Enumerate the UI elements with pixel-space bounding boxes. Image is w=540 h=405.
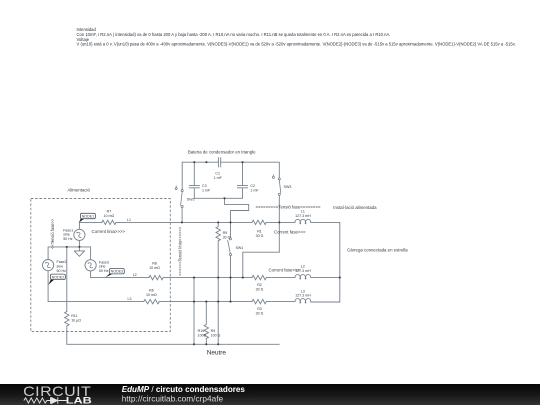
svg-text:L3: L3 <box>128 297 132 301</box>
svg-text:R10: R10 <box>198 329 205 333</box>
svg-text:Fase2: Fase2 <box>57 260 67 264</box>
svg-text:R7: R7 <box>107 210 112 214</box>
svg-text:1 mF: 1 mF <box>250 188 259 192</box>
svg-text:Corrent fase>>>: Corrent fase>>> <box>269 268 301 273</box>
svg-text:50 Hz: 50 Hz <box>99 269 109 273</box>
svg-text:10 mΩ: 10 mΩ <box>146 293 157 297</box>
svg-text:http://circuitlab.com/crp4afe: http://circuitlab.com/crp4afe <box>122 394 224 404</box>
svg-text:SW3: SW3 <box>284 185 292 189</box>
svg-text:L2: L2 <box>301 265 305 269</box>
svg-text:SW2: SW2 <box>187 198 195 202</box>
svg-text:sine: sine <box>99 265 106 269</box>
svg-text:<<<<<<<<<Tensió fase>>>>>>>>: <<<<<<<<<Tensió fase>>>>>>>> <box>255 204 321 209</box>
svg-text:<<<<<<Tensió línia>>>>>>: <<<<<<Tensió línia>>>>>> <box>178 226 183 276</box>
svg-text:R3: R3 <box>257 307 262 311</box>
svg-text:1 mF: 1 mF <box>214 176 223 180</box>
svg-text:10 mΩ: 10 mΩ <box>104 214 115 218</box>
svg-text:30 Ω: 30 Ω <box>256 234 264 238</box>
svg-text:100 Ω: 100 Ω <box>211 333 221 337</box>
svg-text:10 μΩ: 10 μΩ <box>71 319 81 323</box>
svg-text:127.3 mH: 127.3 mH <box>295 294 311 298</box>
svg-text:C1: C1 <box>215 171 220 175</box>
svg-text:C3: C3 <box>202 184 207 188</box>
svg-text:Instal·lació alimentada: Instal·lació alimentada <box>333 205 377 210</box>
svg-text:Con 10mF, I R2.nA ( intensidad: Con 10mF, I R2.nA ( intensidad) va de 0 … <box>77 32 391 37</box>
svg-text:L2: L2 <box>133 273 137 277</box>
svg-text:NODE2: NODE2 <box>52 275 64 279</box>
svg-text:Bateria de condensador en tria: Bateria de condensador en triangle <box>188 150 256 155</box>
svg-text:127.3 mH: 127.3 mH <box>295 214 311 218</box>
svg-text:sine: sine <box>63 233 70 237</box>
svg-text:L1: L1 <box>127 218 131 222</box>
svg-text:R1: R1 <box>257 230 262 234</box>
svg-text:Càrrega connectada en estrella: Càrrega connectada en estrella <box>347 247 408 252</box>
svg-text:R2: R2 <box>257 283 262 287</box>
svg-text:Fase1: Fase1 <box>63 228 73 232</box>
svg-text:LAB: LAB <box>66 396 93 405</box>
svg-text:C2: C2 <box>250 184 255 188</box>
svg-text:Neutre: Neutre <box>207 350 227 357</box>
svg-text:V (un10) está a 0 v. V(un10) p: V (un10) está a 0 v. V(un10) pasa de 400… <box>77 42 516 47</box>
svg-text:Corrent fase>>>: Corrent fase>>> <box>274 229 306 234</box>
svg-text:R8: R8 <box>152 262 157 266</box>
svg-text:30 Ω: 30 Ω <box>223 235 231 239</box>
svg-text:100Ω: 100Ω <box>198 333 207 337</box>
svg-text:R9: R9 <box>211 329 216 333</box>
svg-text:R6: R6 <box>149 289 154 293</box>
svg-text:NODE3: NODE3 <box>111 270 123 274</box>
svg-text:NODE1: NODE1 <box>82 215 94 219</box>
svg-text:SW1: SW1 <box>236 246 244 250</box>
svg-text:<<Tensió fase>>: <<Tensió fase>> <box>50 218 55 249</box>
svg-text:Alimentació: Alimentació <box>67 187 90 192</box>
svg-text:50 Hz: 50 Hz <box>57 269 67 273</box>
svg-text:L3: L3 <box>301 289 305 293</box>
svg-text:L1: L1 <box>301 210 305 214</box>
svg-text:Corrent linia>>>>: Corrent linia>>>> <box>92 229 126 234</box>
svg-text:R9: R9 <box>223 231 228 235</box>
svg-text:30 Ω: 30 Ω <box>256 287 264 291</box>
svg-text:50 Hz: 50 Hz <box>63 237 73 241</box>
svg-text:R11: R11 <box>71 314 77 318</box>
svg-text:10 mΩ: 10 mΩ <box>149 266 160 270</box>
svg-text:1 mF: 1 mF <box>202 188 211 192</box>
svg-text:sine: sine <box>57 265 64 269</box>
svg-text:Fase3: Fase3 <box>99 260 109 264</box>
svg-text:30 Ω: 30 Ω <box>256 311 264 315</box>
